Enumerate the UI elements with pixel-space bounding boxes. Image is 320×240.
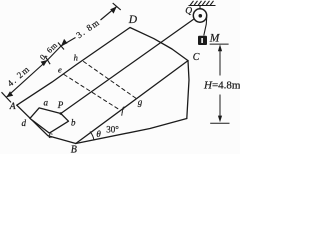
svg-text:C: C: [193, 52, 200, 63]
arrow into T1 (points up-right): [41, 60, 48, 66]
svg-text:30°: 30°: [106, 124, 119, 134]
pulley Q: [193, 9, 206, 22]
svg-text:D: D: [128, 14, 138, 26]
svg-text:P: P: [57, 100, 64, 110]
svg-text:e: e: [58, 65, 62, 75]
arrow at A tick (points down-left): [6, 91, 13, 97]
tick at A end: [2, 92, 12, 102]
svg-text:H=4.8m: H=4.8m: [203, 80, 240, 92]
wire pulley link: [199, 6, 201, 10]
wire front lower edge A-V-B (passes behind block): [17, 105, 76, 143]
mass M block: [198, 36, 207, 45]
wire edge B-C (incline bottom edge): [76, 61, 188, 144]
svg-text:c: c: [48, 130, 52, 140]
svg-text:θ: θ: [96, 129, 101, 139]
dimension line 4.2m / 0.6m / 3.8m: [2, 3, 121, 102]
ceiling: [189, 1, 216, 6]
shaft 4.2m segment: [6, 60, 47, 97]
wire edge D-C: [130, 28, 188, 61]
dimension H=4.8m: [210, 44, 230, 123]
tick at D end: [113, 3, 121, 10]
node P dot: [60, 112, 63, 115]
arrow into T2 (points down-left): [61, 39, 68, 46]
tick T1: [45, 56, 50, 64]
shaft 3.8m segment: [61, 38, 76, 47]
svg-text:A: A: [9, 102, 16, 112]
arrow at D tick (points up-right): [110, 7, 117, 14]
wire rope P to pulley: [61, 19, 194, 113]
wire edge A-D (incline top edge): [17, 28, 130, 106]
svg-text:h: h: [74, 53, 78, 63]
svg-text:Q: Q: [185, 7, 192, 17]
tick T2: [58, 43, 64, 50]
svg-text:B: B: [71, 145, 77, 155]
wire rope pulley to mass M: [204, 17, 207, 36]
svg-text:a: a: [44, 98, 49, 108]
svg-text:d: d: [22, 118, 27, 128]
wire edge C-baseR (right edge of wedge): [187, 61, 189, 119]
block abcd on incline: [30, 108, 69, 133]
svg-text:g: g: [138, 97, 143, 107]
svg-text:b: b: [71, 118, 76, 128]
dashed line h-g: [84, 62, 137, 99]
svg-text:M: M: [209, 33, 221, 45]
angle arc at B: [90, 132, 94, 141]
shaft 0.6m segment: [48, 46, 62, 60]
dashed line e-f: [64, 75, 118, 109]
wire edge B-baseR (base edge): [76, 119, 187, 144]
